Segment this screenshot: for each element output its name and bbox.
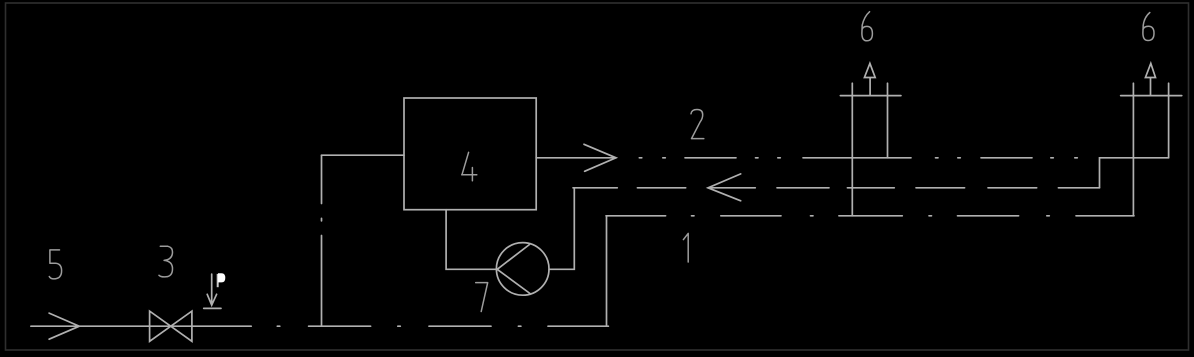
wire: return pipe (dashed) [573,187,1100,189]
boiler box 4 [404,98,536,210]
radiator 6 (left) right drop to pipe 2 [887,83,889,158]
label 4 [462,152,477,181]
label 1 [683,233,688,262]
label 3 [159,246,173,277]
label P [218,274,225,287]
wire: supply pipe 2 (dash-dot-dot) [639,157,1077,159]
radiator 6 (right) left drop to pipe 1 [1132,83,1134,216]
node supply flow arrow 2 [584,144,616,171]
label 2 [691,110,704,139]
wire: pump outlet to return riser [549,188,574,269]
wire: riser to boiler (dash-dot vertical) [321,155,323,326]
radiator 6 (right) exhaust arrow [1145,63,1155,95]
wire: inlet line dash-dot segment [277,325,608,327]
radiator 6 (left) left drop to pipe 1 [851,83,853,216]
wire: boiler outlet (supply) [536,157,616,159]
label 5 [49,250,61,279]
wire: inlet line solid segment [31,325,251,327]
radiator 6 (left) exhaust arrow [864,63,875,95]
node return flow arrow [708,174,741,201]
radiator 6 (right) bar [1121,95,1182,97]
wire: return step junction [1100,158,1169,188]
wire: riser pipe1 to inlet line [606,216,608,326]
wire: boiler bottom to pump inlet [446,210,496,270]
node 5 inlet flow arrow [49,313,79,339]
label 6 (right) [1143,13,1154,41]
pump 7 [496,243,549,296]
valve 3 [150,311,192,341]
label 7 [476,283,488,312]
radiator 6 (left) bar [840,95,901,97]
radiator 6 (right) right drop to return step [1168,83,1170,158]
wire: connector riser to boiler left [322,154,405,156]
label 6 (left) [862,12,873,41]
pressure tap P arrow [204,274,221,308]
wire: pipe 1 (dash-dot) [606,215,1134,217]
